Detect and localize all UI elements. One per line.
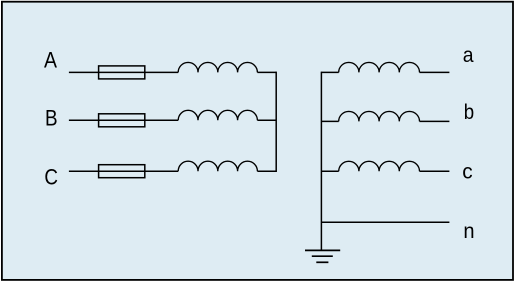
secondary bus wire [320, 72, 322, 251]
svg-text:A: A [44, 48, 57, 73]
ground [305, 250, 340, 262]
wire L4 to node a [420, 71, 450, 73]
wire L3 to primary bus [257, 170, 276, 172]
inductor L1 (primary A) [178, 62, 257, 72]
wire L5 to node b [420, 120, 450, 122]
wire L2 to primary bus [257, 119, 276, 121]
fuse F1 [99, 66, 145, 79]
svg-text:n: n [463, 219, 474, 243]
wire neutral n [321, 221, 449, 223]
inductor L3 (primary C) [178, 161, 257, 171]
svg-text:B: B [45, 105, 58, 130]
svg-text:C: C [44, 165, 58, 190]
inductor L6 (secondary c) [339, 161, 420, 171]
wire L6 to node c [420, 170, 450, 172]
wire A [69, 71, 178, 73]
fuse F2 [99, 114, 145, 127]
wire C [69, 170, 178, 172]
wire bus to L5 [321, 120, 338, 122]
wire B [69, 119, 178, 121]
inductor L4 (secondary a) [339, 62, 420, 72]
primary neutral bus wire [275, 72, 277, 172]
svg-text:a: a [463, 43, 474, 67]
wire L1 to primary bus [257, 71, 276, 73]
svg-text:c: c [462, 160, 473, 184]
inductor L2 (primary B) [178, 110, 257, 120]
wire bus to L6 [321, 170, 338, 172]
fuse F3 [99, 165, 145, 178]
wire bus to L4 [321, 71, 338, 73]
svg-text:b: b [464, 100, 474, 124]
inductor L5 (secondary b) [339, 111, 420, 121]
